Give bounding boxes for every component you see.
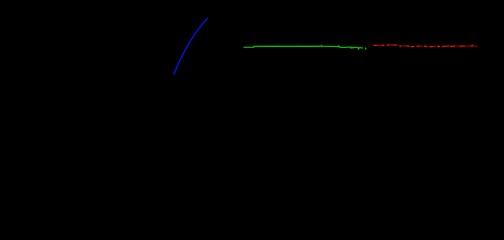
- red trace right continuous part: [452, 45, 478, 47]
- red trace bright dashes: [374, 45, 473, 47]
- green trace bright segment: [254, 45, 320, 47]
- blue curve trace: [174, 18, 208, 74]
- green trace: [244, 45, 362, 49]
- red trace left dashed part: [373, 45, 451, 47]
- green trace end tick: [364, 47, 367, 49]
